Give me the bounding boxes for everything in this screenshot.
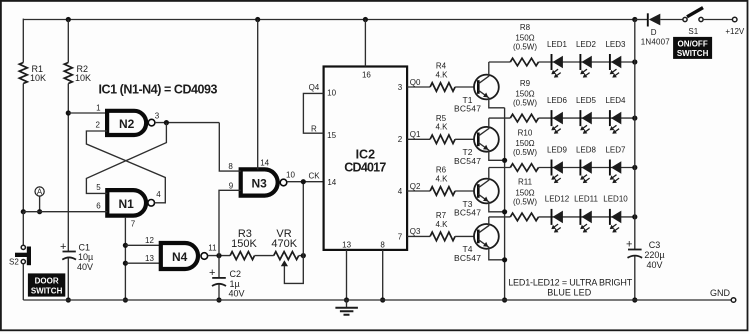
pin label 7 IC2 right — [398, 232, 403, 241]
svg-text:(0.5W): (0.5W) — [513, 43, 537, 52]
wire top supply rail — [23, 19, 635, 21]
svg-text:LED10: LED10 — [603, 195, 628, 204]
svg-text:R8: R8 — [520, 23, 531, 32]
svg-text:150Ω: 150Ω — [515, 139, 534, 148]
wire rail to diode — [635, 19, 648, 21]
svg-text:10: 10 — [286, 170, 295, 179]
svg-text:Q4: Q4 — [309, 83, 320, 92]
pin label 7 — [131, 220, 136, 229]
wire N3 pin9 input — [219, 190, 241, 255]
label C2 — [229, 269, 245, 298]
node junction T2 emitter — [502, 158, 507, 163]
pin label 10 — [286, 170, 295, 179]
label LED4 — [605, 96, 626, 105]
svg-text:ON/OFF: ON/OFF — [677, 39, 707, 48]
label LED2 — [576, 40, 597, 49]
svg-text:10K: 10K — [30, 73, 46, 83]
wire IC2 Q0 output — [407, 86, 430, 88]
wire S2 to ground rail — [22, 264, 24, 300]
node junction A pin6 — [37, 209, 42, 214]
wire row R8 to LEDs — [539, 61, 635, 63]
label LED1 — [547, 40, 568, 49]
switch S2 blade — [15, 247, 31, 266]
svg-text:8: 8 — [380, 240, 385, 249]
wire R5 to T2 base — [455, 138, 477, 140]
pin label 16 — [362, 70, 371, 79]
wire N3 pin14 supply — [257, 20, 259, 170]
potentiometer VR — [274, 252, 299, 260]
svg-text:220µ: 220µ — [644, 250, 664, 260]
svg-text:R7: R7 — [436, 211, 447, 220]
wire N2 pin1 stub — [68, 112, 107, 114]
resistor R8 — [510, 58, 538, 66]
pin label 3 — [155, 112, 160, 121]
resistor R1 — [19, 63, 27, 84]
svg-text:2: 2 — [95, 121, 100, 130]
label LED9 — [547, 145, 568, 154]
node junction row R8 rail — [632, 59, 637, 64]
svg-text:(0.5W): (0.5W) — [513, 148, 537, 157]
wire row R9 to LEDs — [539, 117, 635, 119]
terminal GND — [710, 288, 736, 303]
node junction row R10 rail — [632, 165, 637, 170]
node junction R1 pin6 — [21, 209, 26, 214]
label R10 — [513, 128, 537, 157]
capacitor C2 — [209, 267, 226, 300]
svg-text:1: 1 — [96, 104, 101, 113]
switch S2 contacts — [21, 245, 25, 263]
resistor R11 — [510, 213, 538, 221]
svg-text:LED6: LED6 — [547, 96, 568, 105]
label LED3 — [605, 40, 626, 49]
label IC1 (N1-N4) = CD4093 — [99, 83, 218, 97]
LED LED2 — [580, 54, 592, 78]
node junction CK — [301, 179, 306, 184]
LED LED1 — [551, 54, 563, 78]
label Q2 — [410, 182, 421, 191]
svg-text:13: 13 — [145, 254, 154, 263]
svg-text:Q0: Q0 — [410, 78, 421, 87]
label S2 — [9, 258, 19, 267]
pin label 8 IC2 — [380, 240, 385, 249]
wire row R10 to LEDs — [539, 167, 635, 169]
label LED6 — [547, 96, 568, 105]
label C3 — [644, 240, 664, 270]
label T3 — [454, 199, 481, 218]
label R3 — [231, 228, 257, 250]
pin label 8 — [228, 162, 233, 171]
label R2 — [75, 64, 91, 83]
label Q0 — [410, 78, 421, 87]
node junction emitter ground — [502, 297, 507, 302]
svg-text:IC1 (N1-N4) = CD4093: IC1 (N1-N4) = CD4093 — [99, 83, 218, 97]
node junction pin7 ground — [123, 297, 128, 302]
wire N1 output to N2 pin2 — [86, 131, 165, 203]
svg-text:BLUE LED: BLUE LED — [547, 288, 592, 298]
node A — [35, 187, 44, 197]
label Q1 — [410, 130, 421, 139]
resistor R9 — [510, 114, 538, 122]
wire IC2 pin13 ground — [346, 250, 348, 300]
node junction T3 emitter — [502, 209, 507, 214]
svg-text:LED9: LED9 — [547, 145, 568, 154]
svg-text:LED4: LED4 — [605, 96, 626, 105]
LED LED9 — [551, 160, 563, 184]
wire LED supply rail — [634, 20, 636, 250]
node junction N2 output — [164, 120, 169, 125]
label LED11 — [574, 195, 598, 204]
svg-text:4: 4 — [156, 190, 161, 199]
svg-text:R6: R6 — [436, 166, 447, 175]
svg-text:150Ω: 150Ω — [515, 90, 534, 99]
pin label 5 — [96, 183, 101, 192]
ic IC2 CD4017 body — [324, 67, 408, 250]
label R9 — [513, 79, 537, 108]
wire bottom ground rail — [23, 299, 731, 301]
pin label 10 IC2 — [327, 88, 336, 97]
wire N4 output to C2 — [218, 256, 220, 278]
wire CK vertical — [302, 182, 304, 256]
svg-text:C1: C1 — [79, 242, 91, 252]
label DOOR SWITCH — [28, 273, 65, 296]
svg-text:12: 12 — [145, 236, 154, 245]
svg-text:40V: 40V — [646, 260, 662, 270]
switch S1 — [683, 8, 703, 22]
resistor R4 — [430, 83, 455, 92]
pin label 2 — [95, 121, 100, 130]
svg-text:10K: 10K — [75, 73, 91, 83]
svg-text:CK: CK — [308, 172, 320, 181]
svg-text:LED1-LED12 = ULTRA BRIGHT: LED1-LED12 = ULTRA BRIGHT — [508, 278, 633, 288]
node junction IC2 pin16 top — [363, 17, 368, 22]
resistor R10 — [510, 164, 538, 172]
svg-text:150K: 150K — [231, 238, 257, 250]
node junction C1 ground — [66, 297, 71, 302]
resistor R7 — [430, 232, 455, 241]
wire N4 pin13 stub — [125, 262, 160, 264]
wire VR to CK node — [299, 255, 304, 257]
node junction pin8 ground — [380, 297, 385, 302]
transistor T2 — [474, 118, 505, 160]
svg-text:4.K: 4.K — [435, 123, 448, 132]
svg-text:D: D — [651, 28, 657, 37]
wire VR wiper loop — [284, 256, 303, 284]
wire left rail to pin6 node — [22, 84, 24, 212]
pin label 13 IC2 — [342, 240, 351, 249]
svg-text:LED2: LED2 — [576, 40, 597, 49]
label Q3 — [410, 227, 421, 236]
pin label 12 — [145, 236, 154, 245]
pin label 15 — [327, 131, 336, 140]
wire N3 output CK — [287, 181, 324, 183]
wire IC2 Q1 output — [407, 138, 430, 140]
svg-text:N1: N1 — [119, 197, 135, 211]
wire R7 to T4 base — [455, 235, 477, 237]
svg-text:16: 16 — [362, 70, 371, 79]
svg-text:11: 11 — [208, 244, 217, 253]
pin label 9 — [229, 181, 234, 190]
ground symbol — [335, 300, 358, 315]
transistor T1 — [474, 62, 505, 108]
wire N2 output — [155, 122, 219, 124]
label LED10 — [603, 195, 628, 204]
svg-text:N4: N4 — [172, 250, 188, 264]
nand gate N1 — [107, 190, 154, 216]
wire N1 pin7 to ground rail — [124, 218, 126, 300]
node junction VR right — [301, 253, 306, 258]
diode D 1N4007 — [648, 13, 683, 26]
svg-text:BC547: BC547 — [454, 156, 481, 166]
svg-text:C2: C2 — [230, 269, 242, 279]
label R1 — [30, 64, 46, 83]
label T2 — [454, 147, 481, 166]
svg-text:R11: R11 — [518, 178, 533, 187]
nand gate N2 — [107, 111, 155, 135]
svg-text:(0.5W): (0.5W) — [513, 198, 537, 207]
svg-text:A: A — [37, 187, 43, 196]
resistor R3 — [230, 252, 254, 260]
wire R4 to T1 base — [455, 86, 477, 88]
svg-text:LED12: LED12 — [545, 195, 570, 204]
label VR — [271, 228, 297, 250]
wire R2 to C1 — [67, 84, 69, 252]
wire R2 top stub — [67, 20, 69, 63]
svg-text:N3: N3 — [252, 177, 268, 191]
label LED note — [508, 278, 633, 298]
svg-text:Q3: Q3 — [410, 227, 421, 236]
wire emitter rail — [504, 108, 506, 300]
svg-text:S1: S1 — [688, 27, 698, 36]
svg-text:15: 15 — [327, 131, 336, 140]
wire row R11 left — [489, 216, 511, 218]
LED LED11 — [580, 209, 592, 233]
svg-text:470K: 470K — [271, 238, 297, 250]
transistor T4 — [474, 217, 505, 260]
wire left rail to S2 — [22, 212, 24, 245]
svg-text:3: 3 — [155, 112, 160, 121]
svg-text:150Ω: 150Ω — [515, 189, 534, 198]
label R5 — [435, 114, 448, 132]
wire left rail upper — [22, 19, 24, 63]
node junction pin13 ground — [344, 297, 349, 302]
wire IC2 Q3 output — [407, 235, 430, 237]
pin label 14 IC2 — [327, 178, 336, 187]
svg-text:Q2: Q2 — [410, 182, 421, 191]
terminal +12V — [725, 17, 745, 36]
wire row R8 left — [489, 61, 511, 63]
svg-text:14: 14 — [327, 178, 336, 187]
svg-text:+: + — [626, 239, 632, 251]
wire N4 output — [208, 255, 231, 257]
wire IC2 pin16 supply — [364, 20, 366, 67]
LED LED8 — [580, 160, 592, 184]
svg-text:7: 7 — [398, 232, 403, 241]
svg-text:BC547: BC547 — [454, 104, 481, 114]
LED LED12 — [551, 209, 563, 233]
wire R3 to VR — [255, 255, 274, 257]
svg-text:14: 14 — [260, 158, 269, 167]
svg-text:10: 10 — [327, 88, 336, 97]
svg-text:Q1: Q1 — [410, 130, 421, 139]
svg-text:3: 3 — [398, 83, 403, 92]
svg-text:+: + — [60, 241, 66, 253]
pin label 6 — [96, 202, 101, 211]
svg-text:+12V: +12V — [725, 27, 745, 36]
svg-text:R5: R5 — [436, 114, 447, 123]
LED LED6 — [551, 110, 563, 134]
label R8 — [513, 23, 537, 52]
label LED12 — [545, 195, 570, 204]
wire S1 to +12V terminal — [703, 19, 732, 21]
label LED7 — [605, 145, 626, 154]
svg-text:S2: S2 — [9, 258, 19, 267]
svg-text:5: 5 — [96, 183, 101, 192]
node junction row R11 rail — [632, 214, 637, 219]
svg-text:10µ: 10µ — [78, 252, 93, 262]
node junction N2 pin1 — [66, 110, 71, 115]
capacitor C3 — [626, 239, 642, 300]
svg-text:1N4007: 1N4007 — [641, 37, 671, 46]
wire IC2 Q2 output — [407, 190, 430, 192]
wire N2 output to N1 pin5 — [86, 123, 166, 194]
node junction T4 emitter — [502, 257, 507, 262]
label T1 — [454, 95, 481, 114]
pin label 13 — [145, 254, 154, 263]
node junction N3 pin14 top — [255, 17, 260, 22]
svg-text:LED11: LED11 — [574, 195, 598, 204]
svg-text:LED8: LED8 — [576, 145, 597, 154]
pin label 4 IC2 right — [398, 187, 403, 196]
LED LED4 — [610, 110, 622, 134]
node junction LED rail top — [632, 17, 637, 22]
svg-text:40V: 40V — [229, 288, 245, 298]
label R pin15 — [311, 125, 317, 134]
wire R6 to T3 base — [455, 190, 477, 192]
resistor R5 — [430, 135, 455, 144]
wire row R9 left — [489, 117, 511, 119]
resistor R6 — [430, 187, 455, 196]
svg-text:R4: R4 — [436, 62, 447, 71]
pin label 14 N3 — [260, 158, 269, 167]
node junction N4 pin13 — [123, 261, 128, 266]
pin label 1 — [96, 104, 101, 113]
node junction R2 top — [66, 17, 71, 22]
label LED5 — [576, 96, 597, 105]
svg-text:R10: R10 — [518, 128, 533, 137]
wire IC2 Q4-R loopback — [303, 93, 323, 133]
svg-text:7: 7 — [131, 220, 136, 229]
svg-text:4: 4 — [398, 187, 403, 196]
VR wiper arrow — [281, 260, 288, 266]
LED LED10 — [610, 209, 622, 233]
transistor T3 — [474, 168, 505, 212]
label C1 — [77, 242, 93, 272]
label Q4 — [309, 83, 320, 92]
label S1 — [688, 27, 698, 36]
svg-text:CD4017: CD4017 — [344, 161, 386, 175]
svg-text:13: 13 — [342, 240, 351, 249]
wire row R10 left — [489, 167, 511, 169]
svg-text:40V: 40V — [77, 262, 93, 272]
svg-text:4.K: 4.K — [435, 174, 448, 183]
label ON/OFF SWITCH — [673, 37, 712, 59]
LED LED5 — [580, 110, 592, 134]
pin label 4 — [156, 190, 161, 199]
label R4 — [435, 62, 448, 80]
svg-text:4.K: 4.K — [435, 220, 448, 229]
capacitor C1 — [60, 241, 76, 300]
svg-text:LED1: LED1 — [547, 40, 568, 49]
wire IC2 pin8 ground — [382, 250, 384, 300]
svg-text:(0.5W): (0.5W) — [513, 99, 537, 108]
svg-text:R9: R9 — [520, 79, 531, 88]
label R7 — [435, 211, 448, 229]
label D — [641, 28, 671, 46]
label T4 — [454, 244, 481, 263]
svg-text:R: R — [311, 125, 317, 134]
label LED8 — [576, 145, 597, 154]
node junction N4 output — [216, 253, 221, 258]
svg-text:+: + — [209, 267, 215, 279]
wire N3 pin8 input — [219, 123, 240, 172]
svg-text:4.K: 4.K — [435, 70, 448, 79]
node junction C3 ground — [632, 297, 637, 302]
wire node A stub — [39, 196, 41, 212]
svg-text:6: 6 — [96, 202, 101, 211]
wire N1 pin6 input — [23, 211, 107, 213]
label R6 — [435, 166, 448, 184]
svg-text:LED7: LED7 — [605, 145, 626, 154]
wire N4 pin12 stub — [125, 244, 160, 246]
pin label 11 — [208, 244, 217, 253]
svg-text:8: 8 — [228, 162, 233, 171]
svg-text:LED3: LED3 — [605, 40, 626, 49]
svg-text:SWITCH: SWITCH — [31, 286, 63, 295]
label R11 — [513, 178, 537, 207]
LED LED7 — [610, 160, 622, 184]
node junction C2 ground — [216, 297, 221, 302]
pin label 2 IC2 right — [398, 135, 403, 144]
svg-text:BC547: BC547 — [454, 208, 481, 218]
node junction row R9 rail — [632, 116, 637, 121]
svg-text:150Ω: 150Ω — [515, 34, 534, 43]
svg-text:BC547: BC547 — [454, 253, 481, 263]
svg-text:2: 2 — [398, 135, 403, 144]
nand gate N3 — [241, 169, 287, 195]
label CK — [308, 172, 320, 181]
svg-text:C3: C3 — [649, 240, 661, 250]
svg-text:SWITCH: SWITCH — [677, 49, 709, 58]
pin label 3 IC2 right — [398, 83, 403, 92]
svg-text:GND: GND — [710, 288, 731, 298]
nand gate N4 — [161, 243, 208, 269]
resistor R2 — [64, 63, 72, 84]
svg-text:IC2: IC2 — [356, 147, 376, 161]
wire row R11 to LEDs — [539, 216, 635, 218]
svg-text:9: 9 — [229, 181, 234, 190]
svg-text:LED5: LED5 — [576, 96, 597, 105]
LED LED3 — [610, 54, 622, 78]
node junction N4 pin12 — [123, 243, 128, 248]
svg-text:N2: N2 — [119, 117, 135, 131]
svg-text:DOOR: DOOR — [35, 276, 59, 285]
